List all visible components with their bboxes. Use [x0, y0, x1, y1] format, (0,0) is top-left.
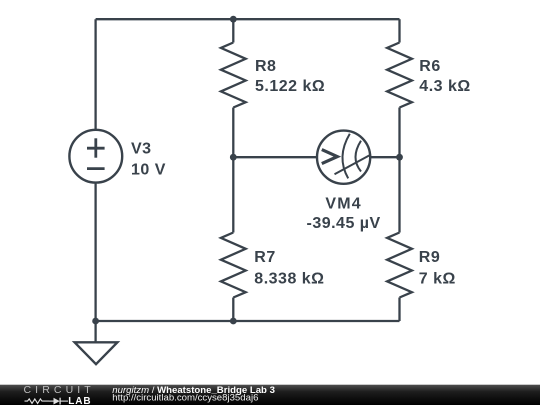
resistor R7 [221, 233, 246, 298]
VM4 dial arc outer [342, 134, 349, 179]
node: middle right junction [396, 154, 403, 161]
wire left rail lower [94, 182, 96, 321]
wire bottom rail [96, 320, 400, 322]
wire middle rail top lead [232, 19, 234, 42]
svg-text:LAB: LAB [68, 396, 91, 405]
wire right rail top lead [398, 19, 400, 42]
svg-text:7 kΩ: 7 kΩ [419, 271, 456, 288]
logo diode [54, 398, 60, 405]
svg-text:R8: R8 [255, 58, 276, 75]
resistor R6 [387, 43, 412, 108]
wire middle rail bottom lead [232, 298, 234, 322]
wire middle horizontal left [233, 156, 316, 158]
VM4 chevron mark [322, 150, 338, 164]
svg-text:http://circuitlab.com/ccyse8j3: http://circuitlab.com/ccyse8j35daj6 [112, 393, 258, 404]
svg-text:R7: R7 [254, 249, 275, 266]
logo diode bar [59, 398, 61, 405]
resistor R9 [387, 233, 412, 298]
svg-text:R6: R6 [419, 58, 440, 75]
svg-text:10 V: 10 V [131, 161, 166, 178]
node: middle left junction [230, 154, 237, 161]
wire right rail mid [398, 108, 400, 233]
voltage source V3 [69, 130, 122, 183]
svg-text:8.338 kΩ: 8.338 kΩ [254, 271, 324, 288]
node: top middle junction [230, 16, 237, 23]
node: bottom left junction [92, 318, 99, 325]
logo wire right [60, 400, 68, 402]
svg-text:R9: R9 [419, 249, 440, 266]
wire right rail bottom lead [398, 298, 400, 322]
node: bottom middle junction [230, 318, 237, 325]
wire ground lead [94, 321, 96, 342]
svg-text:-39.45 µV: -39.45 µV [306, 215, 380, 232]
svg-text:V3: V3 [131, 140, 152, 157]
VM4 circle body [317, 131, 370, 184]
V3 minus sign [87, 167, 105, 170]
voltmeter VM4 [317, 131, 371, 184]
V3 plus sign [87, 147, 105, 150]
resistor R8 [221, 43, 246, 108]
VM4 dial arc inner [356, 141, 362, 172]
svg-text:4.3 kΩ: 4.3 kΩ [419, 78, 470, 95]
wire middle rail mid [232, 108, 234, 233]
logo wire left [49, 400, 54, 402]
logo resistor zigzag [25, 399, 50, 404]
ground [75, 342, 118, 364]
wire top rail [96, 18, 400, 20]
wire middle horizontal right [371, 156, 400, 158]
svg-text:CIRCUIT: CIRCUIT [24, 384, 95, 396]
svg-text:VM4: VM4 [325, 196, 362, 213]
V3 circle body [69, 130, 122, 183]
svg-text:5.122 kΩ: 5.122 kΩ [255, 78, 325, 95]
wire left rail upper [94, 19, 96, 130]
VM4 needle [335, 155, 372, 175]
